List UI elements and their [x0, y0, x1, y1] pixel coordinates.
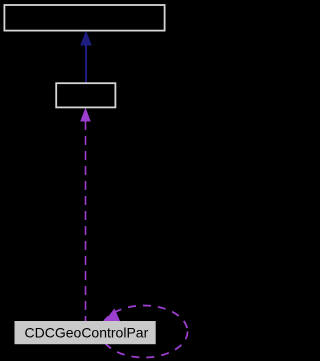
wire: inheritance edge (solid blue vertical) [85, 45, 87, 83]
wire: usage edge (dashed purple vertical) [85, 121, 87, 321]
node: base class box (top, empty) [4, 5, 164, 31]
inheritance arrowhead [80, 31, 92, 46]
usage edge arrowhead [80, 108, 91, 122]
self-loop arrowhead [105, 309, 121, 322]
node: intermediate class box (middle, empty) [56, 83, 115, 107]
node: CDCGeoControlPar (current class, grey) [15, 321, 156, 344]
svg-text:CDCGeoControlPar: CDCGeoControlPar [25, 324, 149, 340]
self-loop edge (dashed purple ellipse) [101, 306, 188, 358]
